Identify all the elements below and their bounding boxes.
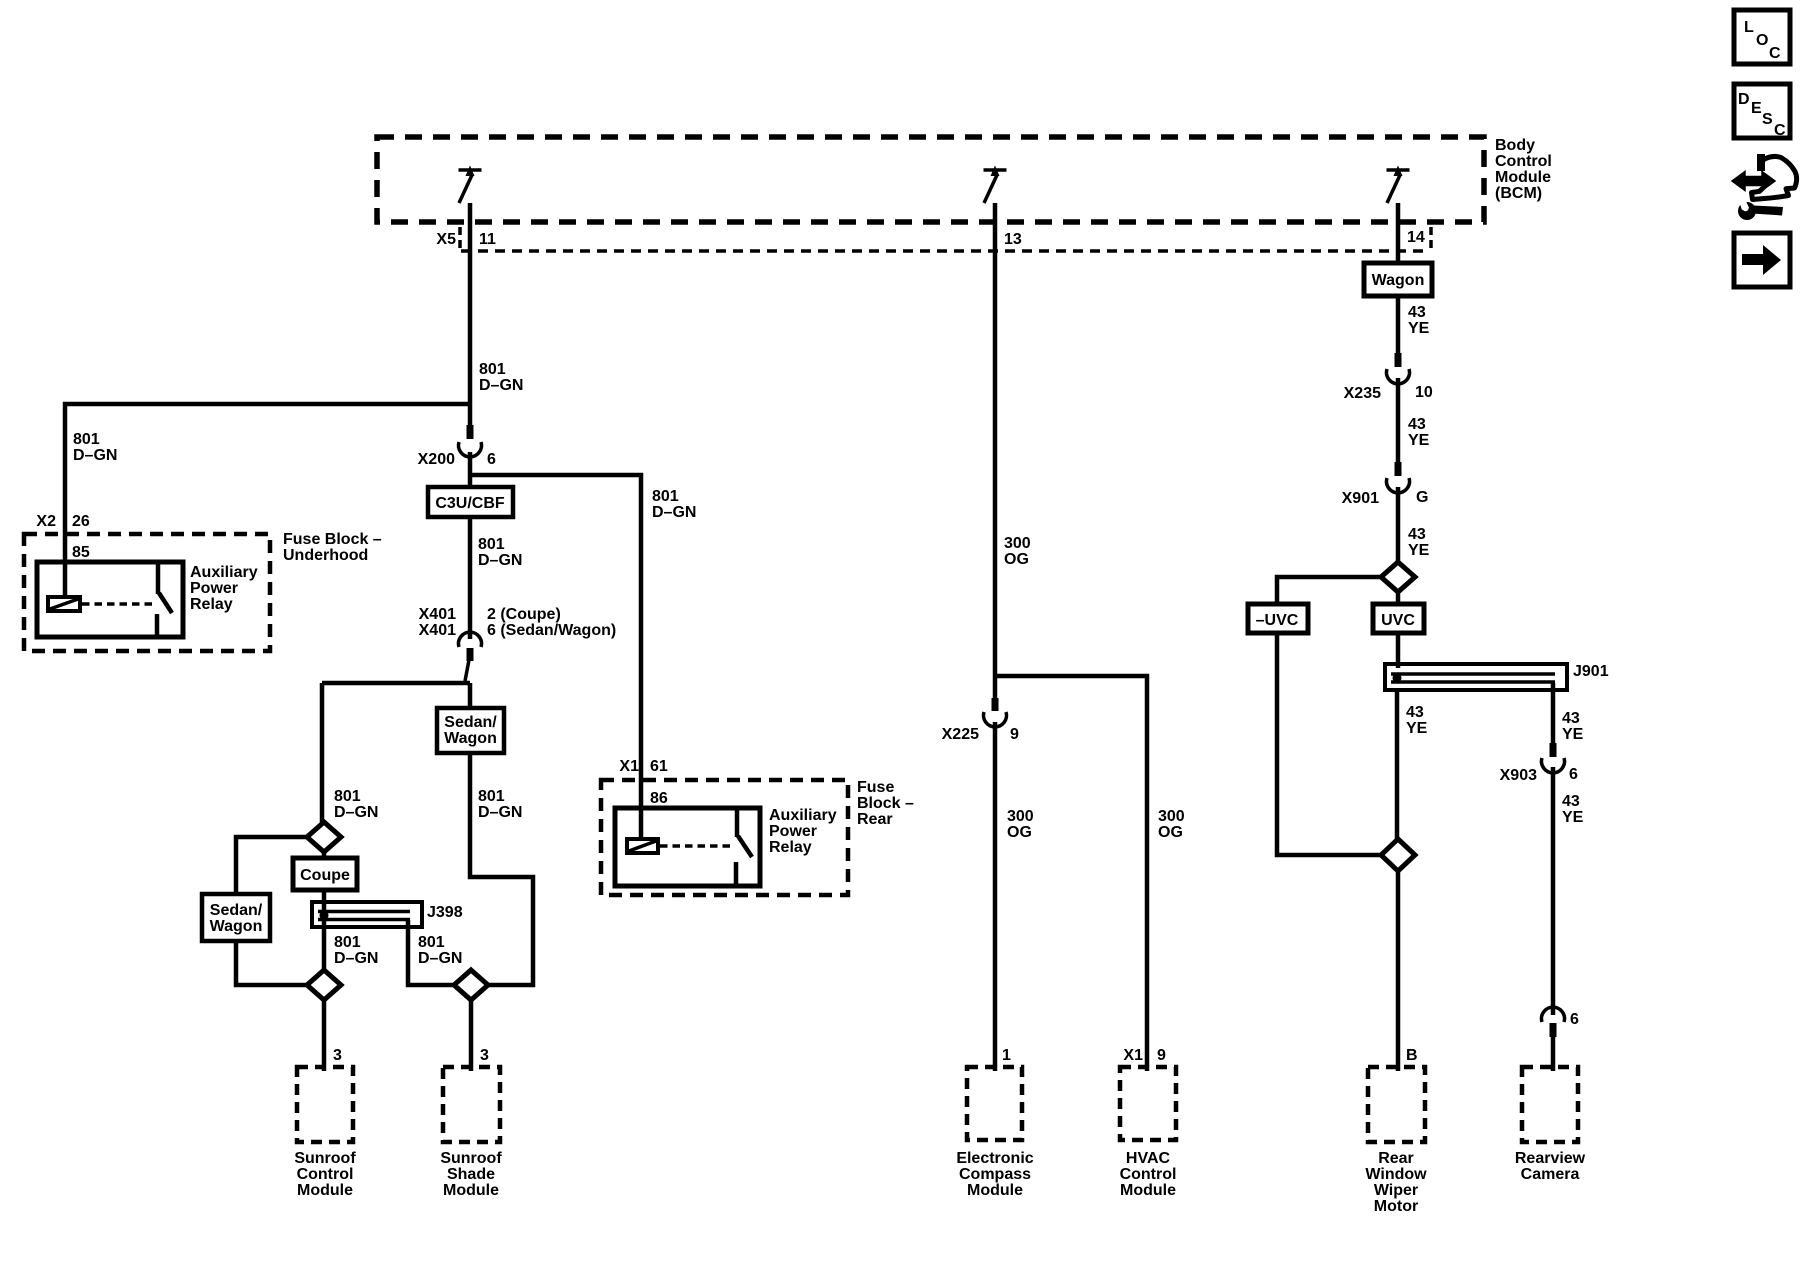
svg-text:85: 85 — [72, 544, 90, 561]
svg-text:43: 43 — [1562, 793, 1580, 810]
svg-text:E: E — [1751, 100, 1762, 117]
driver symbol in BCM pin 14 — [1387, 166, 1410, 204]
label 43 YE (3) — [1408, 526, 1430, 559]
connector X235 pin 10 — [1387, 353, 1410, 384]
box Sedan/Wagon (left) — [202, 894, 270, 941]
wire down to diamond A — [320, 683, 325, 824]
svg-text:Camera: Camera — [1521, 1166, 1580, 1183]
svg-text:D–GN: D–GN — [334, 950, 378, 967]
wire X901 to diamond D — [1396, 487, 1401, 562]
icon LOC button — [1734, 10, 1790, 64]
module Sunroof Control Module — [294, 1067, 356, 1199]
module Electronic Compass Module — [956, 1067, 1033, 1199]
splice diamond D — [1381, 562, 1415, 592]
icon forward-arrow button — [1734, 233, 1790, 287]
svg-text:801: 801 — [73, 431, 100, 448]
wire diamond A to Coupe box — [322, 852, 327, 858]
wire diamond D to -UVC box — [1277, 577, 1381, 604]
wire Coupe to J398 — [322, 890, 327, 926]
label X225 9 — [942, 726, 1019, 743]
svg-text:14: 14 — [1407, 229, 1425, 246]
svg-text:YE: YE — [1562, 726, 1584, 743]
svg-text:6 (Sedan/Wagon): 6 (Sedan/Wagon) — [487, 622, 616, 639]
svg-text:X1: X1 — [1123, 1047, 1143, 1064]
svg-text:D–GN: D–GN — [418, 950, 462, 967]
module Body Control Module (BCM) dashed box — [377, 137, 1484, 222]
dashed harness line below BCM — [461, 249, 1430, 253]
pin label X1 61 (rear fuse block) — [619, 758, 667, 775]
box Wagon — [1364, 263, 1432, 296]
connector X901 pin G — [1387, 462, 1410, 493]
svg-text:Power: Power — [190, 580, 238, 597]
wire X235 to X901 — [1396, 378, 1401, 463]
connector camera pin 6 — [1542, 1007, 1579, 1037]
svg-text:Control: Control — [297, 1166, 354, 1183]
svg-text:OG: OG — [1004, 551, 1029, 568]
svg-text:801: 801 — [478, 536, 505, 553]
wire junction below X401 — [322, 681, 470, 686]
wire -UVC to diamond E — [1277, 633, 1381, 855]
label 43 YE (2) — [1408, 416, 1430, 449]
svg-text:UVC: UVC — [1381, 612, 1415, 629]
svg-text:3: 3 — [333, 1047, 342, 1064]
module Sunroof Shade Module — [440, 1067, 502, 1199]
svg-text:HVAC: HVAC — [1126, 1150, 1171, 1167]
svg-text:Module: Module — [967, 1182, 1023, 1199]
svg-text:6: 6 — [487, 451, 496, 468]
svg-text:D–GN: D–GN — [479, 377, 523, 394]
svg-text:Rear: Rear — [857, 811, 893, 828]
label Fuse Block - Rear — [857, 779, 914, 828]
svg-text:Fuse Block –: Fuse Block – — [283, 531, 382, 548]
box -UVC — [1248, 604, 1308, 633]
pin label X1 9 (hvac) — [1123, 1047, 1166, 1064]
svg-text:Body: Body — [1495, 137, 1535, 154]
svg-text:9: 9 — [1010, 726, 1019, 743]
svg-text:L: L — [1744, 19, 1754, 36]
wire Sedan/Wagon left box to diamond B — [236, 941, 307, 985]
label 801 D-GN left branch — [73, 431, 117, 464]
label 801 D-GN right leg — [478, 788, 522, 821]
svg-text:Block –: Block – — [857, 795, 914, 812]
module Rearview Camera — [1515, 1067, 1586, 1183]
label X901 G — [1342, 489, 1429, 507]
svg-text:2 (Coupe): 2 (Coupe) — [487, 606, 561, 623]
svg-text:300: 300 — [1007, 808, 1034, 825]
svg-text:OG: OG — [1158, 824, 1183, 841]
svg-text:Motor: Motor — [1374, 1198, 1418, 1215]
svg-text:26: 26 — [72, 513, 90, 530]
svg-text:J398: J398 — [427, 904, 463, 921]
label Auxiliary Power Relay (underhood) — [190, 564, 258, 613]
svg-text:Rearview: Rearview — [1515, 1150, 1586, 1167]
label 300 OG hvac leg — [1158, 808, 1185, 841]
wire 801 D-GN from BCM pin 11 — [468, 203, 473, 426]
svg-text:Wiper: Wiper — [1374, 1182, 1418, 1199]
module Fuse Block - Rear dashed box — [601, 780, 848, 895]
svg-text:D: D — [1738, 91, 1750, 108]
svg-text:6: 6 — [1570, 1011, 1579, 1028]
fuse C3U/CBF — [428, 487, 513, 517]
svg-text:Relay: Relay — [190, 596, 233, 613]
svg-text:9: 9 — [1157, 1047, 1166, 1064]
svg-text:C: C — [1769, 45, 1781, 62]
svg-text:X903: X903 — [1500, 767, 1537, 784]
svg-text:X401: X401 — [419, 606, 456, 623]
label Body Control Module (BCM) — [1495, 137, 1552, 202]
svg-text:–UVC: –UVC — [1256, 612, 1299, 629]
svg-text:C3U/CBF: C3U/CBF — [435, 495, 505, 512]
svg-text:X2: X2 — [36, 513, 56, 530]
svg-text:Wagon: Wagon — [444, 730, 497, 747]
splice diamond A — [307, 822, 341, 852]
svg-text:S: S — [1762, 111, 1773, 128]
label X401 X401 — [419, 606, 456, 639]
svg-text:43: 43 — [1406, 704, 1424, 721]
svg-text:X5: X5 — [436, 231, 456, 248]
svg-text:43: 43 — [1408, 304, 1426, 321]
svg-text:J901: J901 — [1573, 663, 1609, 680]
box Coupe — [293, 858, 357, 890]
svg-text:Wagon: Wagon — [1372, 272, 1425, 289]
wire branch to rear fuse block — [470, 475, 641, 840]
splice pack J901 — [1385, 664, 1567, 690]
wire diamond A left to Sedan/Wagon left box — [236, 837, 307, 894]
svg-text:43: 43 — [1408, 416, 1426, 433]
svg-text:Power: Power — [769, 823, 817, 840]
relay Auxiliary Power Relay (rear) — [615, 808, 760, 886]
svg-text:11: 11 — [479, 231, 496, 248]
svg-text:YE: YE — [1408, 320, 1430, 337]
svg-text:X1: X1 — [619, 758, 639, 775]
svg-text:Wagon: Wagon — [210, 918, 263, 935]
wire UVC to J901 — [1396, 633, 1401, 668]
wire Sedan/Wagon right leg to diamond C — [470, 753, 533, 985]
svg-text:OG: OG — [1007, 824, 1032, 841]
label 2 (Coupe) 6 (Sedan/Wagon) — [487, 606, 616, 639]
svg-text:Fuse: Fuse — [857, 779, 894, 796]
wire diamond E to wiper motor — [1396, 871, 1401, 1071]
label 43 YE (1) — [1408, 304, 1430, 337]
svg-text:6: 6 — [1569, 766, 1578, 783]
wire X225 to Electronic Compass Module — [993, 722, 998, 1071]
svg-text:Module: Module — [1495, 169, 1551, 186]
svg-text:B: B — [1406, 1047, 1418, 1064]
wire J901 to diamond E — [1395, 690, 1400, 840]
label 801 D-GN rear branch — [652, 488, 696, 521]
svg-text:Rear: Rear — [1378, 1150, 1414, 1167]
module Rear Window Wiper Motor — [1365, 1067, 1427, 1215]
label 300 OG top — [1004, 535, 1031, 568]
splice diamond E — [1381, 839, 1415, 871]
wire diamond D to UVC box — [1396, 592, 1401, 604]
wire camera connector to module — [1551, 1037, 1556, 1071]
wire J398 to diamond B — [322, 927, 327, 970]
label 801 D-GN left leg — [334, 788, 378, 821]
svg-text:Sedan/: Sedan/ — [444, 714, 497, 731]
connector X225 pin 9 — [984, 698, 1007, 727]
splice diamond B — [307, 970, 341, 1000]
svg-text:D–GN: D–GN — [73, 447, 117, 464]
wire diamond B to Sunroof Control Module — [322, 1000, 327, 1071]
svg-text:(BCM): (BCM) — [1495, 185, 1542, 202]
svg-text:D–GN: D–GN — [652, 504, 696, 521]
label Auxiliary Power Relay (rear) — [769, 807, 837, 856]
svg-text:YE: YE — [1408, 542, 1430, 559]
label X235 10 — [1344, 384, 1433, 402]
svg-text:X401: X401 — [419, 622, 456, 639]
svg-text:Module: Module — [443, 1182, 499, 1199]
module Fuse Block - Underhood dashed box — [24, 534, 270, 651]
wire branch to HVAC — [995, 676, 1147, 1071]
svg-text:X235: X235 — [1344, 385, 1381, 402]
svg-text:Auxiliary: Auxiliary — [190, 564, 258, 581]
wire C3U/CBF to X401 — [468, 517, 473, 639]
label 801 D-GN below J398 right — [418, 934, 462, 967]
svg-text:801: 801 — [334, 934, 361, 951]
svg-text:C: C — [1774, 122, 1786, 139]
pin label 14 — [1407, 227, 1431, 252]
svg-text:86: 86 — [650, 790, 668, 807]
label 43 YE camera leg — [1562, 710, 1584, 743]
box UVC — [1373, 604, 1424, 633]
driver symbol in BCM pin 13 — [984, 166, 1007, 204]
wire J901 right exit to X903 — [1551, 683, 1556, 744]
svg-text:13: 13 — [1004, 231, 1022, 248]
svg-text:43: 43 — [1562, 710, 1580, 727]
label 43 YE wiper leg — [1406, 704, 1428, 737]
svg-text:801: 801 — [478, 788, 505, 805]
icon DESC button — [1734, 84, 1790, 139]
wire 300 OG from BCM pin 13 — [993, 203, 998, 699]
label 801 D-GN below fuse — [478, 536, 522, 569]
svg-text:Sunroof: Sunroof — [294, 1150, 356, 1167]
svg-text:Relay: Relay — [769, 839, 812, 856]
wire X200 to C3U/CBF — [468, 452, 473, 487]
svg-text:Auxiliary: Auxiliary — [769, 807, 837, 824]
svg-text:Control: Control — [1120, 1166, 1177, 1183]
svg-text:Coupe: Coupe — [300, 867, 350, 884]
svg-text:Compass: Compass — [959, 1166, 1031, 1183]
svg-text:Electronic: Electronic — [956, 1150, 1033, 1167]
svg-text:Window: Window — [1365, 1166, 1427, 1183]
icon swap-arrow with wrench — [1732, 154, 1797, 220]
connector X200 pin 6 — [459, 425, 482, 457]
svg-text:D–GN: D–GN — [334, 804, 378, 821]
svg-text:10: 10 — [1415, 384, 1433, 401]
svg-text:801: 801 — [334, 788, 361, 805]
svg-text:300: 300 — [1004, 535, 1031, 552]
wire X903 to camera connector — [1551, 767, 1556, 1015]
svg-text:X225: X225 — [942, 726, 979, 743]
svg-text:Module: Module — [1120, 1182, 1176, 1199]
svg-text:3: 3 — [480, 1047, 489, 1064]
wire from BCM pin 14 — [1396, 203, 1401, 263]
svg-text:300: 300 — [1158, 808, 1185, 825]
driver symbol in BCM pin 11 — [459, 166, 482, 204]
svg-text:D–GN: D–GN — [478, 804, 522, 821]
svg-text:X901: X901 — [1342, 490, 1379, 507]
wire 801 D-GN branch to underhood relay — [65, 404, 470, 598]
svg-text:Sunroof: Sunroof — [440, 1150, 502, 1167]
box Sedan/Wagon (right) — [437, 708, 504, 753]
svg-text:YE: YE — [1408, 432, 1430, 449]
svg-text:Underhood: Underhood — [283, 547, 368, 564]
wire diamond C to Sunroof Shade Module — [469, 1000, 474, 1071]
connector X903 pin 6 — [1542, 743, 1565, 773]
label 300 OG compass leg — [1007, 808, 1034, 841]
svg-text:D–GN: D–GN — [478, 552, 522, 569]
pin label X5 11 — [436, 227, 496, 252]
svg-text:Control: Control — [1495, 153, 1552, 170]
svg-text:Module: Module — [297, 1182, 353, 1199]
svg-text:801: 801 — [652, 488, 679, 505]
wire J398 right exit to diamond C — [408, 920, 454, 985]
pin label X2 26 — [36, 513, 89, 530]
svg-text:G: G — [1416, 489, 1428, 506]
label X903 6 — [1500, 766, 1578, 784]
svg-text:801: 801 — [479, 361, 506, 378]
svg-text:O: O — [1756, 32, 1768, 49]
splice pack J398 — [312, 902, 422, 927]
svg-text:61: 61 — [650, 758, 668, 775]
wire Sedan/Wagon right leg top — [468, 683, 473, 708]
label Fuse Block - Underhood — [283, 531, 382, 564]
svg-text:1: 1 — [1002, 1047, 1011, 1064]
module HVAC Control Module — [1120, 1067, 1177, 1199]
splice diamond C — [454, 970, 488, 1000]
wire Wagon to X235 — [1396, 296, 1401, 354]
label X200 6 — [418, 451, 496, 468]
svg-text:YE: YE — [1562, 809, 1584, 826]
svg-text:Sedan/: Sedan/ — [210, 902, 263, 919]
connector X401 — [459, 632, 482, 681]
label 43 YE below X903 — [1562, 793, 1584, 826]
svg-text:43: 43 — [1408, 526, 1426, 543]
svg-text:801: 801 — [418, 934, 445, 951]
relay Auxiliary Power Relay (underhood) — [37, 562, 183, 637]
label 801 D-GN below J398 left — [334, 934, 378, 967]
svg-text:X200: X200 — [418, 451, 455, 468]
label 801 D-GN top — [479, 361, 523, 394]
svg-text:Shade: Shade — [447, 1166, 495, 1183]
svg-text:YE: YE — [1406, 720, 1428, 737]
